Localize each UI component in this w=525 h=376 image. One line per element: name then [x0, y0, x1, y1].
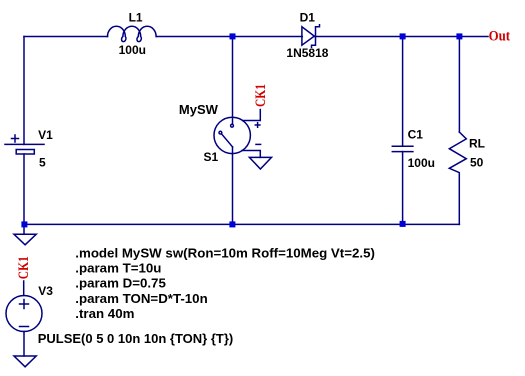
svg-text:.param D=0.75: .param D=0.75: [75, 276, 166, 291]
svg-text:CK1: CK1: [253, 84, 269, 107]
svg-text:D1: D1: [300, 11, 316, 25]
svg-text:C1: C1: [408, 128, 424, 142]
svg-text:V1: V1: [38, 128, 53, 142]
svg-text:MySW: MySW: [179, 102, 219, 117]
svg-text:1N5818: 1N5818: [286, 46, 328, 60]
svg-text:RL: RL: [469, 137, 485, 151]
svg-text:.model MySW sw(Ron=10m Roff=: .model MySW sw(Ron=10m Roff=10Meg Vt=2.5…: [75, 246, 375, 261]
svg-text:.param TON=D*T-10n: .param TON=D*T-10n: [75, 291, 207, 306]
svg-text:CK1: CK1: [16, 256, 32, 279]
svg-text:PULSE(0 5 0 10n 10n {TON} {T}): PULSE(0 5 0 10n 10n {TON} {T}): [38, 331, 234, 346]
svg-text:100u: 100u: [119, 43, 146, 57]
svg-text:50: 50: [470, 156, 484, 170]
svg-text:.param T=10u: .param T=10u: [75, 261, 161, 276]
svg-text:Out: Out: [489, 29, 511, 45]
svg-text:5: 5: [39, 156, 46, 170]
svg-text:V3: V3: [38, 284, 53, 298]
svg-text:L1: L1: [129, 11, 143, 25]
svg-text:100u: 100u: [408, 156, 435, 170]
svg-text:.tran 40m: .tran 40m: [75, 306, 134, 321]
svg-text:S1: S1: [204, 150, 219, 164]
